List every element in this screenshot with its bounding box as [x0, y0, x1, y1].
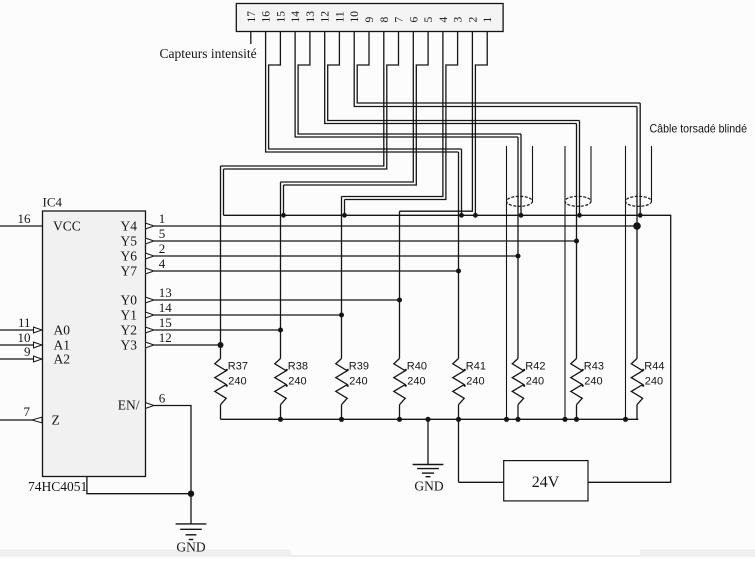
column wire to R42 x=518.0	[517, 137, 519, 359]
wire pair return to +24V bus x=344.5	[344, 200, 346, 216]
R40 label anchor dots	[405, 369, 407, 371]
24V neg riser (shared with R41 leg)	[458, 419, 460, 482]
Y2 pin 15 junction	[278, 328, 283, 333]
svg-text:R41: R41	[466, 361, 486, 373]
junction EN/ground	[188, 491, 194, 497]
wire pin 16 to column top x=458.5	[266, 32, 459, 153]
svg-text:Capteurs intensité: Capteurs intensité	[160, 46, 257, 61]
svg-text:9: 9	[24, 344, 31, 359]
svg-text:R39: R39	[349, 361, 369, 373]
svg-text:GND: GND	[176, 540, 205, 555]
column wire to R37 x=220.5	[220, 166, 222, 359]
svg-text:Y1: Y1	[121, 308, 138, 323]
resistor R40 240	[394, 359, 405, 405]
svg-text:13: 13	[159, 285, 172, 300]
cable shield 3 left line (to ground)	[625, 146, 627, 419]
svg-text:VCC: VCC	[53, 219, 81, 234]
column wire to R38 x=280.5	[280, 182, 282, 359]
Y4 pin 1 junction	[633, 222, 641, 230]
ground (sensor return)	[413, 464, 444, 466]
wire pin 4 to column top x=341.5	[342, 32, 443, 197]
svg-text:Y7: Y7	[121, 264, 138, 279]
svg-text:8: 8	[379, 17, 391, 23]
Y5 pin 5 triangle	[146, 238, 155, 244]
column wire to R43 x=576.5	[576, 124, 578, 359]
junction on ground bus x=341.5	[339, 417, 344, 422]
svg-text:15: 15	[275, 11, 287, 23]
svg-text:R38: R38	[288, 361, 308, 373]
wire pin 2 to column top x=399.5	[400, 32, 473, 212]
Y1 pin 14 triangle	[146, 312, 155, 318]
Y0 pin 13 triangle	[146, 297, 155, 303]
wire pair return to +24V bus x=461.5	[461, 149, 463, 215]
Y5 pin 5 wire	[154, 240, 577, 242]
cable shield 2 right line	[590, 146, 592, 201]
svg-text:4: 4	[438, 17, 450, 23]
svg-text:2: 2	[467, 17, 479, 23]
svg-text:240: 240	[407, 376, 425, 388]
svg-text:74HC4051: 74HC4051	[28, 479, 87, 494]
Y4 pin 1 wire	[154, 225, 637, 227]
wire pin 14 to column top x=518.0	[295, 32, 518, 138]
resistor R44 bottom lead	[636, 405, 638, 420]
R44 label anchor dots	[642, 369, 644, 371]
ground tap wire	[427, 419, 429, 464]
Y5 pin 5 junction	[574, 239, 579, 244]
wire pin 7 (jog) to 24V-bus drop x=223.5	[224, 32, 399, 170]
svg-text:4: 4	[159, 256, 166, 271]
svg-text:1: 1	[482, 17, 494, 23]
connector J1 (Capteurs) box	[236, 4, 503, 32]
A2 pin 9 wire	[0, 358, 34, 360]
svg-text:Y2: Y2	[121, 323, 138, 338]
Y7 pin 4 wire	[154, 270, 459, 272]
junction on ground bus x=399.5	[397, 417, 402, 422]
junction on ground bus x=565.0	[562, 417, 567, 422]
svg-text:EN/: EN/	[118, 398, 140, 413]
svg-text:Y0: Y0	[121, 293, 138, 308]
resistor R42 bottom lead	[517, 405, 519, 420]
wire pin 3 (jog) to 24V-bus drop x=344.5	[345, 32, 458, 200]
resistor R42 240	[512, 359, 523, 405]
svg-text:2: 2	[159, 241, 166, 256]
Y6 pin 2 triangle	[146, 253, 155, 259]
svg-text:6: 6	[408, 17, 420, 23]
svg-text:12: 12	[159, 330, 172, 345]
svg-text:240: 240	[288, 376, 306, 388]
svg-text:5: 5	[159, 226, 166, 241]
R37 label anchor dots	[226, 369, 228, 371]
svg-text:24V: 24V	[532, 474, 560, 491]
VCC pin 16 wire	[0, 225, 43, 227]
op IC4 74HC4051 body	[43, 211, 146, 477]
Y7 pin 4 junction	[456, 269, 461, 274]
A0 pin 11 wire	[0, 329, 34, 331]
resistor R41 240	[453, 359, 464, 405]
column wire to R40 x=399.5	[399, 211, 401, 358]
svg-text:A0: A0	[54, 323, 71, 338]
Y6 pin 2 junction	[516, 254, 521, 259]
svg-text:9: 9	[364, 17, 376, 23]
junction on ground bus x=428.0	[425, 417, 430, 422]
resistor R38 bottom lead	[280, 405, 282, 420]
Y3 pin 12 junction	[218, 342, 224, 348]
svg-text:14: 14	[159, 300, 173, 315]
junction on +24V bus x=475.4	[473, 213, 478, 218]
svg-text:7: 7	[24, 404, 31, 419]
svg-text:15: 15	[159, 315, 172, 330]
EN/ pin 6 triangle	[146, 403, 155, 409]
junction on ground bus x=625.5	[623, 417, 628, 422]
svg-text:16: 16	[261, 11, 273, 23]
svg-text:Câble torsadé blindé: Câble torsadé blindé	[650, 123, 748, 136]
Y2 pin 15 wire	[154, 329, 281, 331]
svg-text:GND: GND	[414, 479, 443, 494]
svg-text:11: 11	[334, 11, 346, 22]
svg-text:11: 11	[18, 315, 31, 330]
wire pair return to +24V bus x=223.5	[223, 169, 225, 215]
svg-text:R44: R44	[644, 361, 664, 373]
svg-text:10: 10	[349, 11, 361, 23]
svg-text:16: 16	[18, 211, 32, 226]
svg-text:6: 6	[159, 391, 166, 406]
svg-text:10: 10	[18, 330, 31, 345]
resistor R43 bottom lead	[576, 405, 578, 420]
svg-text:240: 240	[645, 376, 663, 388]
cable shield 2 left line (to ground)	[564, 146, 566, 419]
bottom window edge strip	[0, 550, 755, 558]
svg-text:1: 1	[159, 211, 166, 226]
Y6 pin 2 wire	[154, 255, 518, 257]
svg-text:240: 240	[466, 376, 484, 388]
Y4 pin 1 triangle	[146, 223, 155, 229]
wire pin 6 to column top x=280.5	[281, 32, 414, 183]
column wire to R44 x=637.0	[636, 107, 638, 359]
wire pin 15 (jog) to 24V-bus drop x=461.5	[269, 32, 462, 150]
cable shield 3 ellipse	[626, 196, 652, 206]
resistor R44 240	[631, 359, 642, 405]
resistor R43 240	[571, 359, 582, 405]
A2 input triangle	[34, 356, 43, 362]
A1 input triangle	[34, 342, 43, 348]
junction on +24V bus x=344.5	[342, 213, 347, 218]
junction on +24V bus x=521.0	[519, 213, 524, 218]
R43 label anchor dots	[582, 369, 584, 371]
svg-text:Z: Z	[52, 413, 60, 428]
Y1 pin 14 junction	[339, 313, 344, 318]
A0 input triangle	[34, 327, 43, 333]
cable shield 1 ellipse	[507, 196, 533, 206]
svg-text:3: 3	[453, 17, 465, 23]
wire pin 10 to column top x=637.0	[354, 32, 637, 107]
Z output triangle	[32, 417, 42, 423]
cable shield 1 left line (to ground)	[506, 146, 508, 419]
+24V supply bus	[224, 215, 671, 482]
svg-text:7: 7	[394, 17, 406, 23]
junction on +24V bus x=283.5	[281, 213, 286, 218]
column wire to R39 x=341.5	[341, 197, 343, 359]
EN/ pin 6 wire	[154, 406, 191, 494]
wire pair return to +24V bus x=521.0	[520, 134, 522, 215]
resistor R39 bottom lead	[341, 405, 343, 420]
svg-text:Y3: Y3	[121, 338, 138, 353]
Y0 pin 13 wire	[154, 299, 400, 301]
svg-text:A2: A2	[54, 352, 71, 367]
Y2 pin 15 triangle	[146, 327, 155, 333]
svg-text:240: 240	[584, 376, 602, 388]
svg-text:A1: A1	[54, 338, 71, 353]
wire pin 8 to column top x=220.5	[221, 32, 384, 167]
Y1 pin 14 wire	[154, 314, 342, 316]
wire pin 11 (jog) to 24V-bus drop x=579.5	[328, 32, 580, 121]
connector pin 17 stub (shield, n.c.)	[250, 32, 252, 45]
svg-text:R42: R42	[525, 361, 545, 373]
resistor R37 240	[215, 359, 226, 405]
svg-text:Y5: Y5	[121, 234, 138, 249]
svg-text:240: 240	[228, 376, 246, 388]
resistor R38 240	[275, 359, 286, 405]
svg-text:Y6: Y6	[121, 249, 138, 264]
ground (IC enable)	[176, 523, 207, 525]
resistor R39 240	[336, 359, 347, 405]
junction on +24V bus x=461.5	[459, 213, 464, 218]
wire pair return to +24V bus x=579.5	[579, 121, 581, 216]
wire pair return to +24V bus x=283.5	[283, 185, 285, 215]
IC ground stub (pin 8)	[87, 477, 191, 494]
svg-text:14: 14	[290, 11, 302, 23]
R39 label anchor dots	[347, 369, 349, 371]
cable shield 1 right line	[532, 146, 534, 201]
cable shield 3 right line	[651, 146, 653, 201]
svg-text:240: 240	[526, 376, 544, 388]
column wire to R41 x=458.5	[458, 152, 460, 359]
R38 label anchor dots	[286, 369, 288, 371]
svg-text:IC4: IC4	[43, 195, 63, 210]
svg-text:5: 5	[423, 17, 435, 23]
junction on ground bus x=506.5	[504, 417, 509, 422]
wire pin 9 (jog) to 24V-bus drop x=640.2	[357, 32, 640, 104]
junction on +24V bus x=640.2	[638, 213, 643, 218]
resistor R40 bottom lead	[399, 405, 401, 420]
svg-text:17: 17	[246, 11, 258, 23]
wire pin 13 (jog) to 24V-bus drop x=521.0	[298, 32, 521, 135]
svg-text:12: 12	[320, 11, 332, 23]
svg-text:Y4: Y4	[121, 219, 138, 234]
Y0 pin 13 junction	[397, 298, 402, 303]
svg-text:R40: R40	[407, 361, 427, 373]
wire to GND symbol	[190, 494, 192, 524]
resistor R37 bottom lead	[220, 405, 222, 420]
junction on ground bus x=518.0	[515, 417, 520, 422]
wire pair return to +24V bus x=640.2	[639, 103, 641, 215]
junction on ground bus x=280.5	[278, 417, 283, 422]
junction on ground bus x=458.5	[456, 417, 461, 422]
wire pin 1 (jog) direct to 24V bus	[475, 32, 487, 216]
resistor R41 bottom lead	[458, 405, 460, 420]
R42 label anchor dots	[523, 369, 525, 371]
svg-text:R43: R43	[584, 361, 604, 373]
R41 label anchor dots	[464, 369, 466, 371]
junction on ground bus x=576.5	[574, 417, 579, 422]
junction on +24V bus x=579.5	[577, 213, 582, 218]
24V negative wire	[459, 481, 504, 483]
cable shield 2 ellipse	[565, 196, 591, 206]
Y3 pin 12 triangle	[146, 342, 155, 348]
ground bus	[221, 418, 639, 420]
svg-text:R37: R37	[228, 361, 248, 373]
svg-text:13: 13	[305, 11, 317, 23]
24V supply box	[504, 461, 588, 501]
wire pin 5 (jog) to 24V-bus drop x=283.5	[284, 32, 429, 186]
Y3 pin 12 wire	[154, 344, 221, 346]
svg-text:240: 240	[349, 376, 367, 388]
wire pin 12 to column top x=576.5	[325, 32, 577, 124]
Z pin 7 wire	[0, 419, 32, 421]
A1 pin 10 wire	[0, 344, 34, 346]
Y7 pin 4 triangle	[146, 268, 155, 274]
